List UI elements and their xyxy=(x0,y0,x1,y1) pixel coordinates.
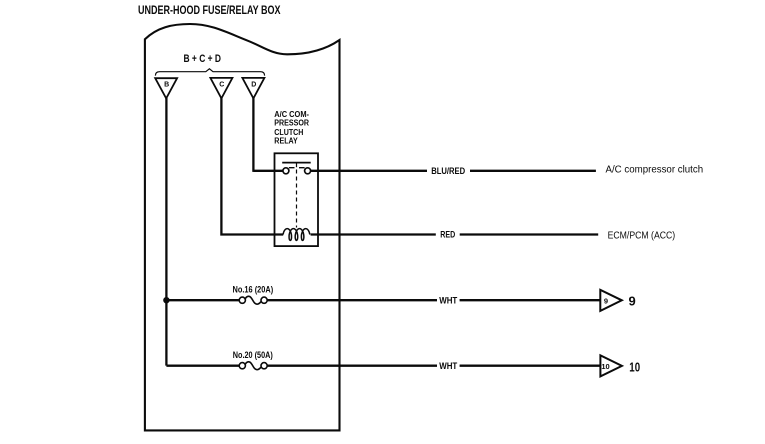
svg-text:B: B xyxy=(164,82,169,89)
svg-text:C: C xyxy=(219,81,224,88)
svg-text:RELAY: RELAY xyxy=(274,136,298,146)
svg-text:No.20 (50A): No.20 (50A) xyxy=(233,350,273,360)
svg-text:BLU/RED: BLU/RED xyxy=(431,166,465,176)
svg-text:9: 9 xyxy=(629,294,636,309)
svg-text:ECM/PCM (ACC): ECM/PCM (ACC) xyxy=(608,230,676,241)
svg-text:UNDER-HOOD FUSE/RELAY BOX: UNDER-HOOD FUSE/RELAY BOX xyxy=(138,3,281,17)
svg-text:RED: RED xyxy=(440,230,455,240)
svg-text:A/C compressor clutch: A/C compressor clutch xyxy=(606,164,704,175)
svg-text:10: 10 xyxy=(629,359,640,374)
svg-text:B + C + D: B + C + D xyxy=(184,53,222,65)
svg-text:D: D xyxy=(251,81,256,88)
svg-text:No.16 (20A): No.16 (20A) xyxy=(233,285,274,295)
svg-text:9: 9 xyxy=(604,297,608,306)
svg-text:WHT: WHT xyxy=(439,361,457,371)
svg-text:WHT: WHT xyxy=(439,295,457,305)
svg-text:10: 10 xyxy=(601,362,609,371)
